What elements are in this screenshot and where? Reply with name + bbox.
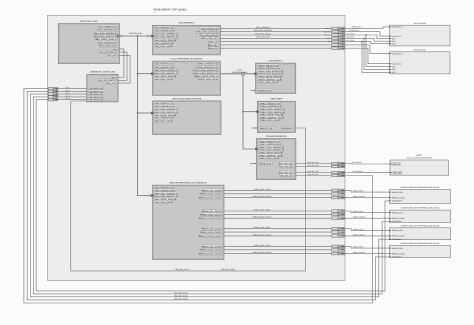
svg-text:OE3: OE3: [392, 71, 395, 74]
gpio bank 2 port labels and arrows: [390, 52, 403, 74]
block: gpio signal bank 1: [390, 22, 451, 46]
pin: interrupt boundary pin 2: [48, 93, 58, 96]
svg-text:EXAMPLE REMOTE PERIPHERAL BUS: EXAMPLE REMOTE PERIPHERAL BUS DEVICE: [401, 186, 441, 189]
svg-text:STROBE GENERATOR: STROBE GENERATOR: [266, 135, 287, 138]
wire: local peripheral bus horizontal: [220, 73, 254, 75]
svg-text:GPIO_OE: GPIO_OE: [209, 41, 219, 44]
svg-text:HARDWARE ID: HARDWARE ID: [269, 60, 283, 63]
wire: gpio bus line 3: [220, 34, 331, 36]
svg-text:IRQ_ACK: IRQ_ACK: [108, 54, 117, 57]
wire: gpio bus line 4: [220, 37, 331, 39]
svg-text:IRQ_ACK: IRQ_ACK: [107, 82, 116, 85]
wire: branch to gpio2 port4: [364, 38, 390, 69]
pin: rpbus enable pin 1: [332, 213, 345, 216]
block: hardware id U7: [256, 60, 296, 94]
svg-text:MAS_DATA_VALID: MAS_DATA_VALID: [155, 201, 173, 204]
gpio external wire labels: [347, 26, 363, 42]
execution core bus port chevron: [116, 35, 119, 38]
svg-text:OE2: OE2: [392, 68, 395, 71]
interrupt controller irq labels: [98, 76, 117, 85]
wire: rpbus enable net 1: [224, 213, 332, 215]
svg-text:INTERRUPT(4): INTERRUPT(4): [89, 99, 103, 102]
rpbus mid-span net labels 2: [253, 226, 272, 236]
wire: pin2 to gpio1 port2: [345, 32, 390, 36]
wire: hreset stub to free timer: [251, 127, 255, 129]
svg-text:TXD_OUT: TXD_OUT: [393, 172, 403, 175]
execution core bus port labels: [94, 25, 117, 48]
hardware id input port chevron: [254, 73, 257, 76]
block: remote peripheral bus interface U6: [153, 182, 225, 260]
rpbus mid-span net labels 3: [253, 244, 272, 254]
svg-text:RPBUS_DATA_OUT(2): RPBUS_DATA_OUT(2): [201, 231, 222, 234]
free timer port labels: [259, 102, 294, 130]
svg-text:RPBUS_DATA: RPBUS_DATA: [392, 229, 404, 232]
svg-text:RPBUS_DATA_OUT(0): RPBUS_DATA_OUT(0): [201, 193, 222, 196]
svg-text:EXECUTION CORE: EXECUTION CORE: [80, 20, 98, 23]
gpio bus wire labels: [254, 26, 273, 39]
hardware id port labels: [257, 64, 283, 92]
demultiplexer port labels: [154, 102, 178, 123]
wire: strobe output 1: [296, 163, 332, 165]
svg-text:IRQ: IRQ: [113, 48, 117, 51]
wire: gpio bus line 5: [220, 41, 331, 43]
svg-text:LPBUS_HRESET(7:0): LPBUS_HRESET(7:0): [198, 63, 218, 66]
dma interface right port labels: [195, 27, 218, 50]
svg-text:CH1_SEL_INV: CH1_SEL_INV: [280, 165, 294, 168]
block: example remote peripheral bus device 4: [390, 242, 451, 257]
svg-text:MAS_WRITE_READ_N: MAS_WRITE_READ_N: [155, 39, 177, 42]
svg-text:PERIPHERAL BUS: PERIPHERAL BUS: [232, 71, 248, 74]
wire: execution core master bus: [119, 35, 147, 37]
svg-text:EXAMPLE REMOTE PERIPHERAL BUS: EXAMPLE REMOTE PERIPHERAL BUS DEVICE: [401, 242, 441, 245]
wire: strobe output 2: [296, 166, 332, 168]
wire: pin4 to gpio1 port4: [345, 38, 390, 41]
svg-text:MAS_DATA_ADDR(31:0): MAS_DATA_ADDR(31:0): [94, 32, 117, 35]
svg-text:GPIO_DATA_OUT(15:0): GPIO_DATA_OUT(15:0): [254, 29, 273, 32]
svg-text:RPBUS_SEL_OUT(3): RPBUS_SEL_OUT(3): [202, 245, 222, 248]
svg-text:RPBUS_CLOCK_OUT(1): RPBUS_CLOCK_OUT(1): [199, 217, 222, 220]
wire: hreset stub to hardware id: [251, 90, 254, 92]
block: interrupt controller U2: [87, 71, 118, 102]
interrupt net mini labels: [65, 86, 69, 100]
svg-text:RPBUS_SEL_OUT(2): RPBUS_SEL_OUT(2): [202, 228, 222, 231]
svg-text:RELAYED_INT(2): RELAYED_INT(2): [174, 294, 188, 297]
pin: gpio boundary pin 4: [332, 37, 345, 40]
svg-text:RPBUS_DATA_OUT(3): RPBUS_DATA_OUT(3): [201, 249, 222, 252]
block: example remote peripheral bus device 1: [390, 186, 451, 203]
svg-text:REMOTE PERIPHERAL BUS INTERFAC: REMOTE PERIPHERAL BUS INTERFACE: [170, 182, 208, 185]
svg-text:LPBUS_DATA_WDAT(15:0): LPBUS_DATA_WDAT(15:0): [193, 72, 218, 75]
wire: strobe output 3: [296, 172, 332, 174]
block: example remote peripheral bus device 2: [390, 207, 451, 223]
bottom relayed interrupt labels: [174, 291, 188, 300]
pin: rpbus data pin 0: [332, 189, 345, 192]
arrow: hreset into free timer: [256, 127, 258, 129]
wire: pin to uart rxd: [345, 163, 390, 166]
wire: rpbus clock to device 2: [345, 217, 390, 219]
wire: rpbus data to device 1: [345, 190, 390, 192]
svg-text:MAS_HRESET(7:0): MAS_HRESET(7:0): [155, 26, 173, 29]
block: free timer U8: [257, 98, 295, 133]
wire: rpbus clock to device 3: [345, 235, 390, 237]
svg-text:RPBUS_CLOCK_OUT(0): RPBUS_CLOCK_OUT(0): [199, 197, 222, 200]
demultiplexer input port chevron: [151, 112, 154, 115]
wire: rpbus data to device 2: [345, 211, 390, 213]
wire: branch to gpio2 port3: [366, 35, 390, 67]
svg-text:GPIO_ADDR(15:0): GPIO_ADDR(15:0): [256, 26, 271, 29]
svg-text:MAS_HRESET(7:0): MAS_HRESET(7:0): [99, 25, 117, 28]
pin: serial/strobe boundary pin 1: [332, 162, 345, 165]
device 1 port labels and arrows: [390, 191, 406, 203]
free timer input port chevron: [256, 110, 259, 113]
svg-text:RXD_IN: RXD_IN: [393, 163, 401, 166]
execution core irq port labels: [99, 47, 118, 57]
arrow: bus into demultiplexer: [151, 112, 153, 114]
wire: rpbus clock net 2: [224, 235, 332, 237]
svg-text:HRESET(7:0): HRESET(7:0): [258, 89, 271, 92]
svg-text:GPIO_DATA_OUT(15:0): GPIO_DATA_OUT(15:0): [196, 31, 218, 34]
svg-text:MAS_DATA_VALID: MAS_DATA_VALID: [155, 120, 173, 123]
wire: rpbus clock net 0: [224, 197, 332, 199]
svg-text:RPBUS_CLOCK: RPBUS_CLOCK: [392, 252, 405, 255]
node: rpb interface entry bubble: [149, 195, 151, 197]
svg-text:GPIO1 SIGNAL: GPIO1 SIGNAL: [414, 22, 426, 25]
svg-text:GPIO_CTRL_SET: GPIO_CTRL_SET: [256, 36, 270, 39]
wire: master bus into dma interface: [149, 35, 152, 37]
wire: pin5 to gpio1 port5: [345, 42, 390, 44]
device 2 port labels and arrows: [390, 211, 406, 223]
uart port labels and arrows: [390, 163, 403, 175]
wire: interrupt line 1: [27, 91, 389, 300]
wire: irq loop 3: [118, 55, 130, 83]
svg-text:MAS_DATA_WDAT(31:0): MAS_DATA_WDAT(31:0): [94, 35, 117, 38]
execution core bus port bubble: [120, 35, 122, 37]
wire: rpbus enable net 2: [224, 231, 332, 233]
rpbus external wire labels 2: [353, 228, 366, 237]
svg-text:RPBUS_DATA: RPBUS_DATA: [392, 191, 404, 194]
wire: gpio bus line 6: [220, 44, 331, 46]
svg-text:MAS_ADDRSEL(3:0): MAS_ADDRSEL(3:0): [98, 29, 117, 32]
svg-text:RPBUS_SEL_OUT(1): RPBUS_SEL_OUT(1): [202, 210, 222, 213]
block: execution core U1: [58, 20, 119, 64]
net label: local peripheral bus: [232, 69, 248, 74]
strobe generator output labels: [279, 162, 294, 177]
lpb bridge right port labels: [193, 62, 219, 81]
wire: strobe output 4: [296, 175, 332, 177]
arrow: bus into rpb interface: [151, 195, 153, 197]
wire: rpbus data net 1: [224, 210, 332, 212]
pin: rpbus data pin 1: [332, 210, 345, 213]
wire: bus into rpb interface segment: [151, 195, 153, 197]
rpbus external wire labels 3: [353, 246, 366, 255]
svg-text:FREE TIMER: FREE TIMER: [271, 98, 283, 101]
wire: interrupt line 0: [24, 89, 373, 303]
svg-text:INTERRUPT: INTERRUPT: [392, 238, 402, 241]
pin: rpbus enable pin 2: [332, 231, 345, 234]
svg-text:INTERRUPT: INTERRUPT: [392, 200, 402, 203]
arrow: lpb into free timer: [256, 111, 257, 113]
svg-text:MAS_HGRANT(3:0): MAS_HGRANT(3:0): [155, 42, 173, 45]
pin: gpio boundary pin 6: [332, 44, 345, 47]
svg-text:LPBUS_DATA_VALID: LPBUS_DATA_VALID: [260, 119, 280, 122]
block: example remote peripheral bus device 3: [390, 224, 451, 239]
svg-text:RELAYED_INT(1): RELAYED_INT(1): [174, 291, 188, 294]
svg-text:HRESET(7:0): HRESET(7:0): [259, 162, 272, 165]
pin: gpio boundary pin 5: [332, 40, 345, 43]
pin: gpio boundary pin 1: [332, 27, 345, 30]
wire: gpio bus line 7: [220, 47, 331, 49]
wire: rpbus enable net 0: [224, 193, 332, 195]
svg-text:GPIO_IN(7:0): GPIO_IN(7:0): [392, 52, 403, 55]
block: dma interface U3: [153, 22, 221, 55]
pin: rpbus clock pin 1: [332, 217, 345, 220]
svg-text:MAS_HGRANT(3:0): MAS_HGRANT(3:0): [99, 41, 117, 44]
node: system bus junction bubble: [147, 35, 149, 37]
pin: rpbus data pin 2: [332, 227, 345, 230]
net label: relayed interrupt: [175, 268, 235, 271]
pin: rpbus enable pin 0: [332, 193, 345, 196]
svg-text:LPBUS_ADDRSEL(3:0): LPBUS_ADDRSEL(3:0): [197, 66, 219, 69]
wire: system bus vertical trunk: [138, 36, 149, 196]
svg-text:LPBUS_DATA_VALID: LPBUS_DATA_VALID: [198, 78, 218, 81]
device 4 port labels and arrows: [390, 247, 406, 259]
wire: irq loop 1: [118, 49, 124, 78]
svg-text:GPIO_CTRL_SET: GPIO_CTRL_SET: [201, 37, 218, 40]
svg-text:GPIO_IN(7:0): GPIO_IN(7:0): [392, 26, 403, 29]
svg-text:LPBUS_DATA_ADDR(15:0): LPBUS_DATA_ADDR(15:0): [193, 69, 218, 72]
svg-text:HRESET(7:0): HRESET(7:0): [260, 127, 273, 130]
arrow: bus into dma interface: [151, 35, 153, 37]
interrupt controller interrupt input labels: [89, 87, 104, 101]
svg-text:MAS_ADDRSEL(3:0): MAS_ADDRSEL(3:0): [155, 66, 174, 69]
pin: interrupt boundary pin 3: [48, 96, 58, 99]
wire: gpio bus line 2: [220, 31, 331, 33]
pin: interrupt boundary pin 4: [48, 98, 58, 101]
wire: rpbus clock to device 4: [345, 253, 390, 255]
svg-text:G_OUT(7:0): G_OUT(7:0): [349, 29, 359, 32]
wire: rpbus data net 0: [224, 189, 332, 191]
svg-text:(ZILOG 16C450 COMPATIBLE): (ZILOG 16C450 COMPATIBLE): [407, 157, 433, 160]
gpio pin-side mini labels: [323, 27, 331, 43]
wire: rpbus data net 2: [224, 228, 332, 230]
wire: hreset stub to strobe generator: [250, 163, 254, 165]
svg-text:DMA_REQ: DMA_REQ: [208, 44, 218, 47]
wire: rpbus enable net 3: [224, 249, 332, 251]
wire: pin3 to gpio1 port3: [345, 35, 390, 39]
svg-text:DMA INTERFACE: DMA INTERFACE: [179, 22, 195, 25]
svg-text:GPIO_DATA_IN(15:0): GPIO_DATA_IN(15:0): [198, 34, 218, 37]
wire: rpbus data net 3: [224, 245, 332, 247]
pin: rpbus clock pin 0: [332, 196, 345, 199]
svg-text:LPBUS_WRITE_READ_N: LPBUS_WRITE_READ_N: [194, 75, 218, 78]
pin: rpbus clock pin 2: [332, 235, 345, 238]
svg-text:MAS_WRITE_READ_N: MAS_WRITE_READ_N: [96, 38, 118, 41]
svg-text:EXAMPLE REMOTE PERIPHERAL BUS: EXAMPLE REMOTE PERIPHERAL BUS DEVICE: [401, 224, 441, 227]
block: first stage demultiplexer U5: [153, 97, 222, 134]
svg-text:RPBUS_CLOCK_OUT(3): RPBUS_CLOCK_OUT(3): [199, 253, 222, 256]
svg-text:RPBUS_DATA_OUT(1): RPBUS_DATA_OUT(1): [201, 213, 222, 216]
rpbus mid-span net labels 0: [253, 188, 272, 198]
dma interface left port labels: [154, 26, 178, 48]
rpbus external wire labels 0: [353, 190, 366, 199]
wire: rpbus data to device 4: [345, 246, 390, 248]
arrow: hreset into hardware id: [254, 90, 256, 92]
svg-text:INTERRUPT CONTROLLER: INTERRUPT CONTROLLER: [90, 71, 115, 74]
pin: rpbus clock pin 3: [332, 252, 345, 255]
svg-text:GPIO_DATA_IN(15:0): GPIO_DATA_IN(15:0): [255, 32, 272, 35]
svg-text:RPBUS_DATA: RPBUS_DATA: [392, 247, 404, 250]
wire: branch to gpio2 port5: [362, 42, 390, 73]
device 3 port labels and arrows: [390, 229, 406, 241]
svg-text:RELAYED_INT(3): RELAYED_INT(3): [174, 297, 188, 300]
pin: rpbus enable pin 3: [332, 249, 345, 252]
pin: interrupt boundary pin 0: [48, 87, 58, 90]
svg-text:GPIO_IN(7:0): GPIO_IN(7:0): [352, 26, 363, 29]
wire: interrupt line 4: [36, 100, 389, 291]
lpb bridge input port chevron: [151, 72, 154, 75]
svg-text:RPBUS_DATA: RPBUS_DATA: [392, 211, 404, 214]
wire: pin1 to gpio1 port1: [345, 27, 390, 29]
svg-text:RPBUS_CLOCK: RPBUS_CLOCK: [392, 196, 405, 199]
rpbus mid-span net labels 1: [253, 208, 272, 218]
rpb interface output port labels: [199, 189, 222, 256]
svg-text:IRQ_VECTOR(7:0): IRQ_VECTOR(7:0): [100, 51, 117, 54]
wire: interrupt line 2: [31, 94, 390, 297]
svg-text:RELAYED_INT(5): RELAYED_INT(5): [175, 268, 189, 271]
strobe generator input port chevron: [255, 148, 258, 151]
wire: local peripheral bus vertical trunk: [243, 75, 254, 149]
rpb interface left port labels: [154, 186, 178, 204]
svg-text:RPBUS_CLOCK: RPBUS_CLOCK: [392, 235, 405, 238]
svg-text:MAS_DATA_WDAT(31:0): MAS_DATA_WDAT(31:0): [155, 72, 178, 75]
dma interface input port chevron: [151, 35, 154, 38]
wire: rpbus clock net 3: [224, 253, 332, 255]
top-level module boundary: [48, 15, 346, 280]
svg-text:INTERRUPT: INTERRUPT: [281, 127, 293, 130]
svg-text:GPIO_ADDR(15:0): GPIO_ADDR(15:0): [201, 27, 218, 30]
svg-text:G_OUT(7:0): G_OUT(7:0): [392, 62, 402, 65]
pin: interrupt boundary pin 1: [48, 90, 58, 93]
wire: interrupt line 3: [33, 97, 389, 294]
block: local peripheral bus bridge U4: [153, 58, 221, 96]
svg-text:OE1: OE1: [392, 37, 395, 40]
svg-text:INTERRUPT: INTERRUPT: [392, 220, 402, 223]
block: strobe generator U9: [256, 135, 296, 180]
arrow: bus into lpb bridge: [151, 73, 153, 75]
svg-text:OE3: OE3: [392, 42, 395, 45]
svg-text:MAS_DATA_WDAT(31:0): MAS_DATA_WDAT(31:0): [155, 36, 178, 39]
svg-text:GPIO2 SIGNAL: GPIO2 SIGNAL: [414, 48, 426, 51]
svg-text:FIRST STAGE DEMULTIPLEXER: FIRST STAGE DEMULTIPLEXER: [172, 97, 202, 100]
pin: rpbus data pin 3: [332, 245, 345, 248]
wire: pin6 to gpio2 port1: [345, 45, 390, 54]
node: local peripheral bus junction: [242, 73, 245, 76]
svg-text:RPBUS_SEL_OUT(0): RPBUS_SEL_OUT(0): [202, 189, 222, 192]
rpb interface input port chevron: [151, 194, 154, 197]
wire: rpbus clock to device 1: [345, 197, 390, 199]
svg-text:MAS_DATA_ADDR(31:0): MAS_DATA_ADDR(31:0): [155, 33, 178, 36]
svg-text:UART: UART: [416, 154, 422, 157]
pin: gpio boundary pin 3: [332, 34, 345, 37]
arrow: lpb into strobe generator: [255, 148, 257, 150]
pin: serial/strobe boundary pin 4: [332, 174, 345, 177]
gpio bank 1 port labels and arrows: [390, 26, 403, 46]
svg-text:LPBUS_DATA_VALID: LPBUS_DATA_VALID: [259, 157, 279, 160]
svg-text:RPBUS_CLOCK_OUT(2): RPBUS_CLOCK_OUT(2): [199, 235, 222, 238]
svg-text:DMA_ACK: DMA_ACK: [208, 47, 218, 50]
svg-text:LOCAL PERIPHERAL BUS BRIDGE: LOCAL PERIPHERAL BUS BRIDGE: [171, 58, 203, 61]
block: gpio signal bank 2: [390, 48, 451, 74]
wire: rpbus clock net 1: [224, 217, 332, 219]
pin: gpio boundary pin 7: [332, 47, 345, 50]
wire: pin to uart txd: [345, 172, 390, 174]
svg-text:INTERRUPT: INTERRUPT: [392, 256, 402, 259]
svg-text:SYSTEM_BUS: SYSTEM_BUS: [129, 32, 142, 35]
block: uart (zilog 16c450 compatible): [390, 154, 449, 175]
lpb bridge left port labels: [154, 62, 178, 81]
svg-text:MAS_DATA_ADDR(31:0): MAS_DATA_ADDR(31:0): [155, 69, 178, 72]
uart wire labels: [352, 161, 363, 173]
wire: pin7 to gpio2 port2: [345, 48, 390, 64]
wire: irq loop 2: [118, 52, 127, 80]
svg-text:EXAMPLE REMOTE PERIPHERAL BUS: EXAMPLE REMOTE PERIPHERAL BUS DEVICE: [401, 207, 441, 210]
wire: rpbus data to device 3: [345, 229, 390, 231]
svg-text:MAS_WRITE_READ_N: MAS_WRITE_READ_N: [155, 75, 177, 78]
svg-text:RPBUS_CLOCK: RPBUS_CLOCK: [392, 217, 405, 220]
wire: system bus stub to lpb bridge: [138, 73, 153, 75]
arrow: lpb into hardware id: [254, 73, 256, 75]
pin: serial/strobe boundary pin 3: [332, 171, 345, 174]
rpbus external wire labels 1: [353, 210, 366, 219]
wire: relayed interrupt from free timer: [71, 101, 306, 271]
arrow: hreset into strobe generator: [255, 163, 257, 165]
svg-text:MAS_DATA_VALID: MAS_DATA_VALID: [155, 78, 173, 81]
svg-text:MAS_DATA_VALID: MAS_DATA_VALID: [100, 45, 118, 48]
svg-text:OE1: OE1: [392, 65, 395, 68]
svg-text:LPBUS_DATA_VALID: LPBUS_DATA_VALID: [258, 81, 278, 84]
svg-text:MAS_DATA_VALID: MAS_DATA_VALID: [155, 45, 173, 48]
svg-text:CH2_SEL_INV: CH2_SEL_INV: [280, 174, 294, 177]
pin: gpio boundary pin 2: [332, 30, 345, 33]
svg-text:MAS_ADDRSEL(3:0): MAS_ADDRSEL(3:0): [155, 30, 174, 33]
svg-text:MAS_HRESET(7:0): MAS_HRESET(7:0): [155, 63, 173, 66]
strobe output wire labels: [307, 161, 319, 176]
svg-text:RELAYED_INT(5): RELAYED_INT(5): [221, 268, 235, 271]
svg-text:GATE ARRAY TOP LEVEL: GATE ARRAY TOP LEVEL: [153, 8, 187, 12]
wire: gpio bus line 1: [220, 27, 331, 29]
pin: serial/strobe boundary pin 2: [332, 165, 345, 168]
wire: system bus stub to demultiplexer: [138, 112, 153, 114]
strobe generator port labels: [258, 140, 284, 165]
wire: lpb stub to free timer: [243, 111, 256, 113]
